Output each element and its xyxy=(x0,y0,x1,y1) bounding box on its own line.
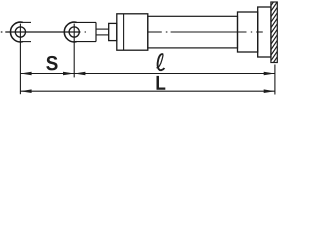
eyelet E2 bracket top line xyxy=(75,21,96,23)
dimension line S and l xyxy=(20,73,275,75)
arrow S left xyxy=(20,72,31,76)
head block internal line xyxy=(123,14,125,50)
centerline long dash 2 xyxy=(171,31,247,33)
piston rod top line xyxy=(96,28,109,30)
eyelet E1 outer circle xyxy=(10,22,22,42)
eyelet E1 bottom tangent stub xyxy=(22,41,31,43)
eyelet E2 outer circle xyxy=(64,22,76,42)
arrow S right xyxy=(63,72,74,76)
eyelet E2 bracket bottom line xyxy=(75,41,96,43)
arrow l left xyxy=(74,72,85,76)
centerline lead dash xyxy=(1,31,3,33)
arrow L right xyxy=(264,89,275,93)
eyelet E2 crosshair horizontal xyxy=(64,31,81,33)
head block xyxy=(117,14,148,50)
centerline end dash xyxy=(256,31,263,33)
eyelet E2 inner circle xyxy=(69,27,79,37)
label S xyxy=(46,56,57,71)
centerline dot 3 xyxy=(251,31,252,33)
arrow l right xyxy=(264,72,275,76)
wire axis solid line between eyelets xyxy=(5,31,64,33)
centerline dot 2 xyxy=(166,31,168,33)
wall hatched bar xyxy=(270,0,278,73)
eyelet E1 vertical crosshair / extension line xyxy=(19,24,21,95)
eyelet E2 bracket right face xyxy=(95,22,97,41)
extension line right xyxy=(274,65,276,95)
wall plate xyxy=(258,7,271,57)
eyelet E1 top tangent stub xyxy=(22,21,31,23)
label l (script ell) xyxy=(157,54,165,70)
centerline long dash 1 xyxy=(148,31,162,33)
centerline dot 1 xyxy=(85,31,86,33)
eyelet E1 inner circle xyxy=(15,27,25,37)
rod collar xyxy=(109,23,117,40)
label L xyxy=(157,76,166,90)
dimension line L xyxy=(20,90,275,92)
end cap xyxy=(238,12,258,52)
cylinder tube xyxy=(148,16,238,48)
arrow L left xyxy=(20,89,31,93)
eyelet E2 vertical crosshair / extension line xyxy=(73,24,75,78)
piston rod bottom line xyxy=(96,34,109,36)
